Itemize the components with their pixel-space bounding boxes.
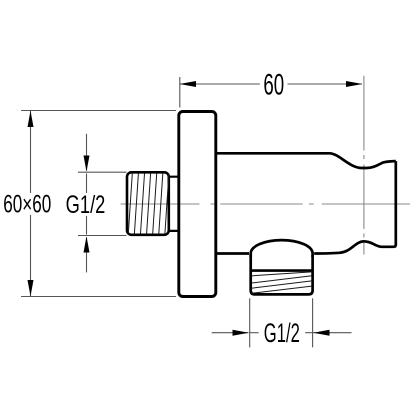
svg-text:G1/2: G1/2 <box>264 318 300 348</box>
svg-text:G1/2: G1/2 <box>66 190 106 219</box>
svg-text:60×60: 60×60 <box>3 192 51 219</box>
svg-text:60: 60 <box>263 70 284 102</box>
